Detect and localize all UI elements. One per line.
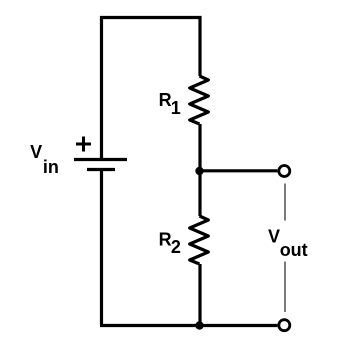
- svg-text:R: R: [159, 90, 172, 110]
- svg-text:R: R: [159, 230, 172, 250]
- svg-text:in: in: [43, 157, 59, 177]
- svg-text:1: 1: [171, 98, 181, 118]
- svg-text:V: V: [30, 142, 42, 162]
- svg-text:out: out: [280, 240, 308, 260]
- svg-text:2: 2: [171, 237, 181, 257]
- svg-text:V: V: [268, 226, 280, 246]
